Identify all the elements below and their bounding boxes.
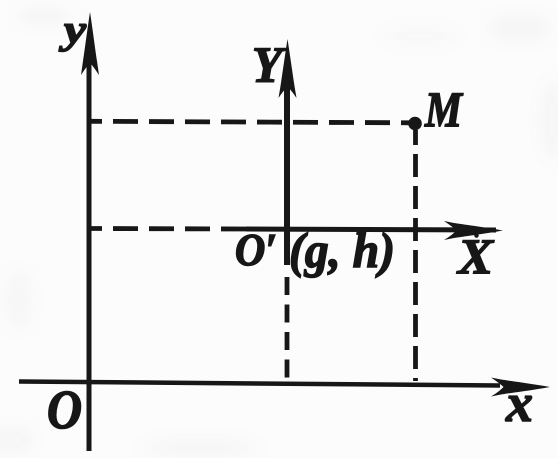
svg-text:(g, h): (g, h) (289, 222, 395, 278)
svg-text:O′: O′ (235, 225, 277, 275)
svg-text:x: x (505, 373, 533, 433)
svg-text:X: X (456, 228, 495, 284)
svg-text:y: y (59, 7, 86, 52)
svg-text:M: M (424, 81, 463, 137)
svg-text:O: O (47, 379, 82, 440)
svg-text:Y: Y (252, 38, 287, 94)
